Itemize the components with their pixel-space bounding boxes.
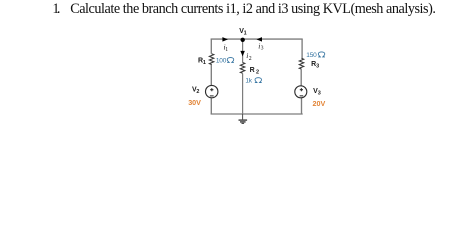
wire: right vertical below V3 (301, 98, 303, 114)
svg-text:R3: R3 (311, 61, 319, 70)
resistor R3 zigzag (299, 58, 303, 69)
svg-text:R2: R2 (250, 67, 259, 75)
svg-text:i3: i3 (258, 41, 263, 51)
resistor R2 zigzag (240, 63, 244, 74)
arrow i2 (down) (240, 51, 245, 57)
wire: right vertical between R3 and V3 (300, 69, 302, 86)
svg-text:R1: R1 (198, 58, 206, 67)
resistor R1 zigzag (209, 54, 213, 65)
svg-text:i2: i2 (246, 51, 251, 62)
wire: top horizontal (211, 38, 303, 40)
wire: middle vertical from node to R2 (242, 39, 244, 62)
arrow i3 (left) (256, 37, 262, 42)
arrow i1 (right) (222, 37, 228, 42)
svg-text:i1: i1 (224, 43, 229, 53)
value 150 ohm omega (318, 52, 325, 57)
svg-text:V2: V2 (192, 87, 199, 95)
voltage source V2 circle (206, 85, 218, 97)
svg-text:1k: 1k (245, 78, 252, 85)
svg-text:150: 150 (306, 52, 317, 59)
V3 minus sign (300, 95, 304, 97)
ground (239, 114, 248, 124)
svg-text:V3: V3 (313, 88, 321, 97)
svg-text:100: 100 (216, 58, 227, 65)
svg-text:30V: 30V (188, 98, 201, 107)
wire: left vertical below V2 (210, 98, 212, 114)
wire: bottom horizontal (211, 113, 303, 115)
V2 minus sign (210, 95, 214, 97)
wire: right vertical upper (301, 39, 303, 58)
value 1k ohm omega (255, 78, 262, 83)
voltage source V3 circle (295, 86, 307, 98)
node V1 dot (241, 38, 245, 42)
svg-text:20V: 20V (313, 99, 326, 108)
wire: left vertical upper (210, 39, 212, 54)
wire: middle vertical below R2 to bottom (242, 74, 244, 115)
svg-text:V1: V1 (239, 28, 246, 37)
value 100 ohm omega (227, 58, 234, 63)
V2 plus sign (210, 88, 213, 91)
wire: left vertical between R1 and V2 (210, 64, 212, 85)
V3 plus sign (300, 88, 303, 91)
title text (0, 0, 474, 1)
